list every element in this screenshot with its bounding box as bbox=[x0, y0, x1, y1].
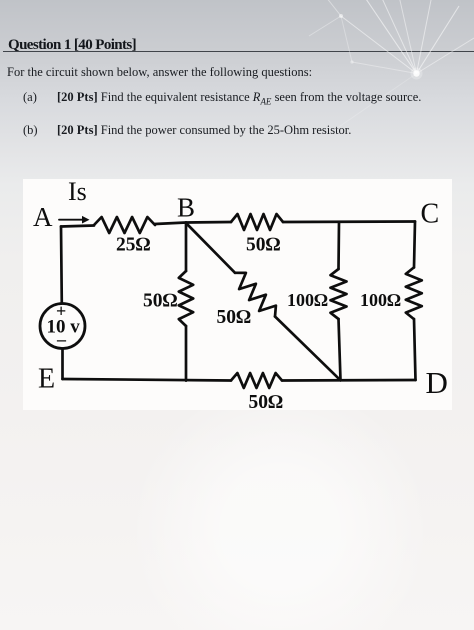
circuit figure white box bbox=[23, 179, 452, 410]
voltage source V1 10v bbox=[40, 301, 85, 349]
resistor 50ohm diagonal bbox=[235, 273, 276, 317]
svg-text:Is: Is bbox=[68, 177, 87, 206]
svg-text:B: B bbox=[177, 193, 195, 223]
wire C down right edge bbox=[414, 222, 415, 268]
resistor 100ohm right bbox=[406, 268, 422, 320]
wire right edge to D bbox=[414, 319, 416, 380]
svg-text:D: D bbox=[426, 365, 448, 400]
svg-text:50Ω: 50Ω bbox=[143, 291, 178, 312]
wire E to bottom resistor bbox=[63, 379, 232, 381]
wire top junction to resistor 100 mid bbox=[337, 222, 340, 269]
voltage source circle bbox=[40, 304, 85, 349]
svg-text:100Ω: 100Ω bbox=[360, 290, 401, 310]
wire diagonal resistor to bottom junction bbox=[275, 317, 341, 381]
svg-text:E: E bbox=[38, 364, 55, 395]
svg-text:100Ω: 100Ω bbox=[287, 290, 328, 310]
wire resistor 50 vertical to bottom bbox=[185, 326, 188, 381]
wire resistor50 to C bbox=[283, 220, 415, 223]
resistor 50ohm vertical bbox=[179, 271, 193, 326]
svg-text:50Ω: 50Ω bbox=[246, 235, 281, 256]
wire bottom resistor to D bbox=[282, 379, 416, 382]
wire source to E corner bbox=[61, 349, 64, 380]
heading bbox=[8, 37, 136, 54]
svg-text:25Ω: 25Ω bbox=[116, 235, 151, 256]
svg-text:50Ω: 50Ω bbox=[249, 392, 284, 413]
heading underline bbox=[3, 51, 474, 53]
wire A to resistor 25 bbox=[61, 226, 94, 227]
wire B to diagonal resistor bbox=[187, 224, 235, 273]
resistor 50ohm bottom bbox=[231, 373, 282, 388]
resistor 50ohm top bbox=[231, 214, 283, 230]
wire A down to source bbox=[60, 227, 63, 304]
wire resistor25 to B bbox=[155, 223, 186, 225]
wire resistor 100 mid to bottom bbox=[339, 319, 341, 380]
svg-text:50Ω: 50Ω bbox=[217, 307, 252, 328]
svg-text:–: – bbox=[56, 329, 67, 349]
item (b) bbox=[23, 123, 38, 138]
wire B down to resistor 50 vertical bbox=[185, 223, 188, 272]
current arrow bbox=[59, 216, 90, 224]
wire B to resistor 50 top bbox=[186, 221, 231, 224]
resistor 25ohm bbox=[94, 217, 155, 233]
item (a) bbox=[23, 90, 37, 105]
svg-text:C: C bbox=[421, 199, 440, 230]
resistor 100ohm mid bbox=[331, 269, 347, 319]
svg-text:A: A bbox=[33, 202, 53, 232]
intro line bbox=[7, 65, 312, 80]
